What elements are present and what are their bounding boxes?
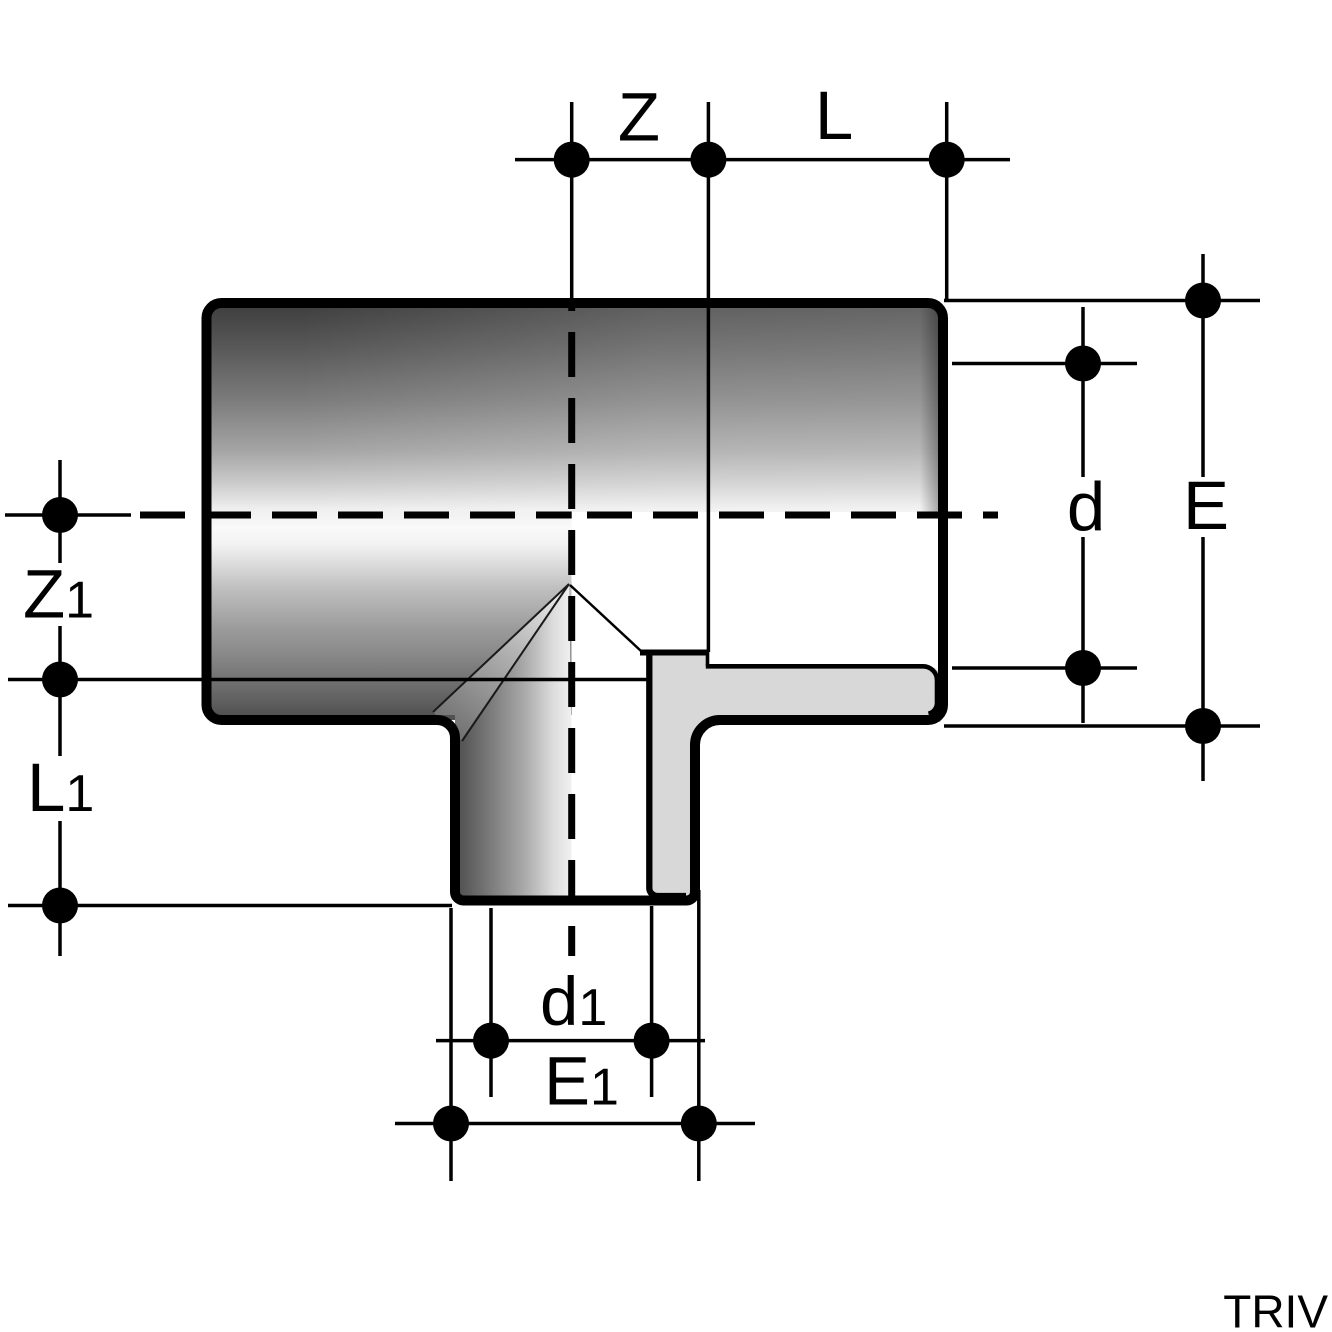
dot d bottom — [1065, 650, 1101, 686]
svg-text:L: L — [815, 77, 853, 154]
section wall fill (gray) — [646, 653, 941, 900]
cone silhouette line left — [433, 584, 569, 712]
dimension d: extension lines — [952, 362, 1137, 366]
body fill: shaded exterior top half — [206, 300, 944, 722]
socket depth line left (Z1/L1 divider) — [8, 678, 648, 682]
dot E bottom — [1185, 708, 1221, 744]
svg-text:E: E — [1183, 467, 1229, 544]
tick through Z right dot, extension to socket step — [707, 102, 711, 652]
dimension Z/L: top dim line — [515, 158, 1010, 162]
tick through L right dot, extension to body corner — [945, 102, 949, 299]
socket bore line (section) — [706, 666, 937, 713]
section cut white area right of centerline — [572, 512, 944, 722]
branch socket bore edge (section) — [649, 652, 686, 896]
dimension E1: dim line — [395, 1122, 755, 1126]
svg-text:d: d — [1067, 469, 1105, 546]
dot L1 bottom — [42, 888, 78, 924]
dimension E: vertical dim line with label gap — [1201, 254, 1205, 477]
dimension d: vertical dim line with label gap — [1081, 307, 1085, 477]
cone transition wedge — [433, 584, 572, 741]
right edge inner shadow — [920, 305, 938, 512]
stem exterior shaded left half — [455, 715, 572, 900]
main bore line (section) — [640, 650, 707, 656]
dot d1 right — [634, 1023, 670, 1059]
dot Z right / L left — [690, 142, 726, 178]
svg-text:TRIV: TRIV — [1223, 1285, 1328, 1332]
dimension d1: dim line — [436, 1039, 705, 1043]
dot E top — [1185, 283, 1221, 319]
dot Z1 bottom / L1 top — [42, 662, 78, 698]
horizontal centerline — [5, 513, 131, 517]
dot d top — [1065, 346, 1101, 382]
taper exterior shading right of cone silhouette — [462, 584, 572, 741]
vertical centerline — [570, 102, 574, 300]
dot L right — [929, 142, 965, 178]
dimension E1: extension lines — [449, 908, 453, 1181]
dimension d1: extension lines — [489, 908, 493, 1097]
socket bottom step — [706, 650, 710, 667]
branch end face dim line — [8, 904, 452, 908]
dot E1 left — [433, 1106, 469, 1142]
dot d1 left — [473, 1023, 509, 1059]
dot Z left — [554, 142, 590, 178]
cone edge line right — [570, 585, 641, 651]
cone silhouette line left 2 — [462, 584, 569, 741]
tee body outline — [207, 303, 944, 901]
svg-text:Z: Z — [618, 79, 660, 156]
body fill: shaded exterior bottom-left quarter — [206, 527, 572, 720]
dot E1 right — [681, 1106, 717, 1142]
dimension Z1/L1: left vertical dim line with label gaps — [58, 460, 62, 563]
dot Z1 top (centerline) — [42, 497, 78, 533]
dimension E: extension lines — [944, 299, 1260, 303]
